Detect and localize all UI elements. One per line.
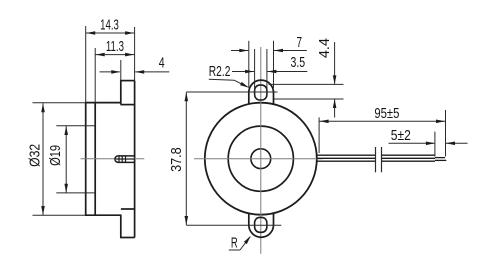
svg-text:5±2: 5±2 — [391, 127, 411, 144]
svg-text:7: 7 — [297, 34, 303, 51]
svg-text:4: 4 — [159, 55, 165, 72]
right view: outer circle — [205, 103, 317, 215]
right view: middle circle — [228, 126, 293, 191]
svg-text:11.3: 11.3 — [106, 38, 124, 55]
dimension D19: inner circle diameter — [56, 126, 95, 193]
left view: top mounting ear (side) — [120, 81, 135, 105]
dimension D32: body diameter — [33, 103, 86, 215]
dimension 3.5: ear hole width — [232, 49, 307, 97]
svg-text:95±5: 95±5 — [374, 105, 399, 122]
right view: bottom ear hole — [255, 217, 267, 232]
wires: lead lines — [316, 155, 435, 161]
svg-text:4.4: 4.4 — [316, 38, 333, 58]
right view: vertical centerline — [260, 47, 262, 254]
right view: bottom mounting ear — [249, 213, 274, 237]
svg-text:37.8: 37.8 — [168, 147, 185, 172]
wires: break marks — [376, 147, 382, 172]
svg-text:3.5: 3.5 — [291, 54, 306, 71]
left view: centerline — [81, 158, 145, 160]
left view: bottom mounting ear (side) — [120, 209, 135, 238]
dimension 37.8: hole center distance — [186, 92, 281, 225]
right view: horizontal centerline — [194, 158, 323, 160]
dimension 5+-2: bare end length — [389, 132, 468, 157]
dimension 4: ear thickness — [100, 60, 170, 81]
label R: ear radius leader — [231, 234, 238, 251]
left view: back edge line through ears — [134, 81, 136, 238]
left view: terminal pin section (pill) — [115, 156, 135, 163]
svg-text:R2.2: R2.2 — [209, 63, 231, 80]
dimension 4.4: ear hole height — [269, 42, 344, 118]
svg-text:R: R — [231, 234, 238, 251]
right view: top ear hole — [255, 85, 267, 100]
dimension 95+-5: lead length — [319, 110, 445, 157]
dimension 7: ear width — [231, 41, 307, 88]
svg-text:Ø32: Ø32 — [27, 144, 44, 167]
svg-text:Ø19: Ø19 — [47, 145, 64, 166]
svg-text:14.3: 14.3 — [100, 17, 119, 34]
dimension 11.3: body depth — [95, 48, 134, 102]
right view: small center circle — [251, 149, 271, 169]
right view: top mounting ear — [249, 80, 274, 104]
dimension 14.3: overall depth — [86, 26, 135, 102]
left view: buzzer body side outline — [85, 102, 121, 215]
wires: stripped bare ends — [435, 158, 446, 161]
